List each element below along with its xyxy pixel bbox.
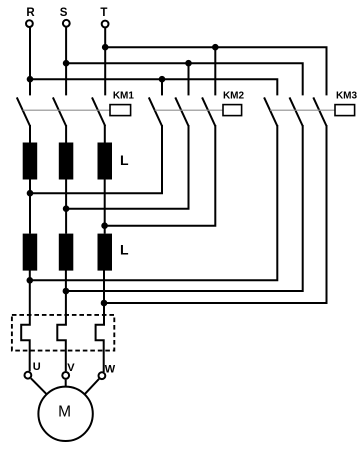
wire KM2 pole 3 stub	[214, 47, 216, 95]
node bank2 output phase T	[101, 300, 108, 307]
node bank1 output phase S	[63, 205, 70, 212]
node T bus junction	[102, 44, 109, 51]
reactor L bank2 phase T	[98, 234, 113, 271]
node S/KM2 tap junction	[185, 60, 192, 67]
wire W to motor	[85, 379, 99, 394]
wire KM1 pole 3 output	[104, 125, 106, 143]
contactor KM2 pole 2 contact	[175, 97, 188, 126]
wire KM1 pole 2 output	[65, 125, 67, 143]
svg-text:KM3: KM3	[336, 91, 358, 102]
contactor KM3 linkage	[270, 109, 335, 111]
reactor L bank1 phase T	[98, 143, 113, 180]
node T/KM2 tap junction	[212, 44, 219, 51]
wire KM2 pole 3 output	[105, 125, 216, 226]
wire R vertical drop to KM1 pole 1	[29, 27, 31, 95]
wire KM2 pole 2 stub	[188, 63, 190, 95]
wire V to motor	[65, 380, 67, 387]
svg-text:KM2: KM2	[223, 91, 245, 102]
contactor KM3 coil box	[335, 105, 355, 116]
terminal S	[60, 7, 70, 27]
wire KM2 pole 1 output	[30, 125, 162, 193]
terminal block dashed box	[12, 315, 114, 351]
node bank2 output phase S	[63, 288, 70, 295]
link phase R (bank2 to U)	[21, 271, 30, 372]
contactor KM1 linkage	[23, 109, 110, 111]
node S bus junction	[63, 60, 70, 67]
reactor L bank2 phase S	[59, 234, 74, 271]
wire bank1 to bank2 phase S	[65, 180, 67, 234]
terminal V	[62, 362, 75, 379]
svg-text:L: L	[120, 242, 129, 258]
contactor KM1 pole 2 contact	[53, 97, 66, 126]
contactor KM2 pole 3 contact	[202, 97, 215, 126]
link phase T (bank2 to W)	[96, 271, 104, 373]
contactor KM2 linkage	[155, 109, 223, 111]
svg-text:U: U	[33, 361, 41, 373]
contactor KM2 coil box	[223, 105, 242, 116]
contactor KM3 pole 2 contact	[290, 97, 303, 126]
wire T vertical drop to KM1 pole 3	[104, 28, 106, 96]
motor M	[38, 387, 92, 441]
node R/KM2 tap junction	[159, 76, 166, 83]
svg-text:W: W	[105, 363, 116, 375]
wire KM3 pole 2 output	[66, 125, 303, 291]
wire bank1 to bank2 phase R	[29, 180, 31, 234]
contactor KM1 pole 1 contact	[17, 97, 30, 126]
wire S vertical drop to KM1 pole 2	[65, 27, 67, 95]
svg-text:R: R	[26, 7, 35, 19]
wire KM1 pole 1 output	[29, 125, 31, 143]
wire KM2 pole 2 output	[66, 125, 188, 209]
terminal R	[26, 7, 35, 27]
wire KM2 pole 1 stub	[161, 79, 163, 95]
svg-text:M: M	[58, 403, 71, 420]
reactor L bank1 phase R	[23, 143, 38, 180]
terminal T	[100, 7, 108, 28]
terminal W	[99, 363, 116, 379]
node R bus junction	[27, 76, 34, 83]
contactor KM3 pole 3 contact	[313, 97, 326, 126]
wire U to motor	[31, 378, 47, 394]
wire T bus to KM2 pole 3 and KM3 pole 3	[105, 47, 326, 95]
node bank1 output phase R	[27, 190, 34, 197]
wire KM3 pole 3 output	[104, 125, 327, 303]
contactor KM3 pole 1 contact	[264, 97, 277, 126]
svg-text:S: S	[60, 7, 68, 19]
wire R bus to KM2 pole 1 and KM3 pole 1	[30, 79, 277, 95]
svg-text:KM1: KM1	[113, 91, 135, 102]
wire bank1 to bank2 phase T	[104, 180, 106, 234]
contactor KM2 pole 1 contact	[149, 97, 162, 126]
contactor KM1 pole 3 contact	[92, 97, 105, 126]
svg-text:T: T	[100, 7, 107, 19]
wire KM3 pole 1 output	[30, 125, 277, 280]
node bank2 output phase R	[27, 277, 34, 284]
reactor L bank2 phase R	[23, 234, 38, 271]
node bank1 output phase T	[101, 222, 108, 229]
terminal U	[25, 361, 41, 379]
contactor KM1 coil box	[110, 105, 131, 116]
reactor L bank1 phase S	[59, 143, 74, 180]
svg-text:L: L	[120, 152, 129, 168]
link phase S (bank2 to V)	[57, 271, 66, 372]
wire S bus to KM2 pole 2 and KM3 pole 2	[66, 63, 303, 95]
